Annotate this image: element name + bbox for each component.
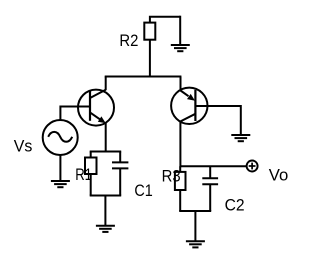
ground G2 (below Vs) [51, 181, 70, 187]
svg-text:C1: C1 [134, 181, 152, 200]
resistor R2 [144, 23, 155, 40]
wire collector bus [105, 76, 182, 78]
terminal Vo [247, 161, 258, 172]
resistor R1 [85, 158, 97, 175]
resistor R3 [175, 172, 186, 190]
svg-text:R1: R1 [75, 165, 92, 184]
ground G1 (top right) [171, 16, 190, 52]
svg-text:C2: C2 [225, 196, 245, 215]
svg-text:Vs: Vs [14, 136, 33, 155]
transistor Q2 [171, 88, 207, 124]
wire output node [180, 165, 247, 167]
wire Q1 collector riser [105, 77, 107, 91]
wire Q2 base lead [195, 105, 240, 107]
wire R1C1 bottom [90, 195, 122, 197]
source Vs [43, 120, 78, 155]
wire Q1 base lead from Vs [60, 107, 90, 121]
wire Q2 collector drop [179, 121, 181, 167]
wire R1 top lead [90, 152, 92, 158]
wire R2 bottom lead [149, 40, 151, 77]
wire ground lead G5 [194, 211, 196, 241]
wire Q2 emitter riser [180, 77, 182, 92]
wire ground lead G4 [104, 196, 106, 226]
svg-text:R3: R3 [162, 166, 181, 185]
transistor Q1 [78, 90, 114, 126]
svg-text:R2: R2 [119, 31, 138, 50]
ground G3 (Q2 base) [231, 135, 250, 141]
wire R3C2 bottom [179, 210, 211, 212]
wire R2 top lead [150, 17, 180, 23]
capacitor C1 [112, 152, 128, 196]
capacitor C2 [202, 166, 218, 211]
ground G4 (below R1C1) [96, 226, 115, 232]
svg-text:Vo: Vo [269, 166, 289, 185]
ground G5 (below R3C2) [186, 241, 205, 247]
wire R3 top lead [179, 166, 181, 172]
wire ground lead G3 [240, 105, 242, 135]
wire R1 bottom lead [90, 174, 92, 196]
wire R3 bottom lead [179, 190, 181, 211]
wire Vs bottom lead [59, 155, 61, 181]
wire Q1 emitter drop [105, 123, 107, 152]
wire R1C1 top [90, 151, 122, 153]
